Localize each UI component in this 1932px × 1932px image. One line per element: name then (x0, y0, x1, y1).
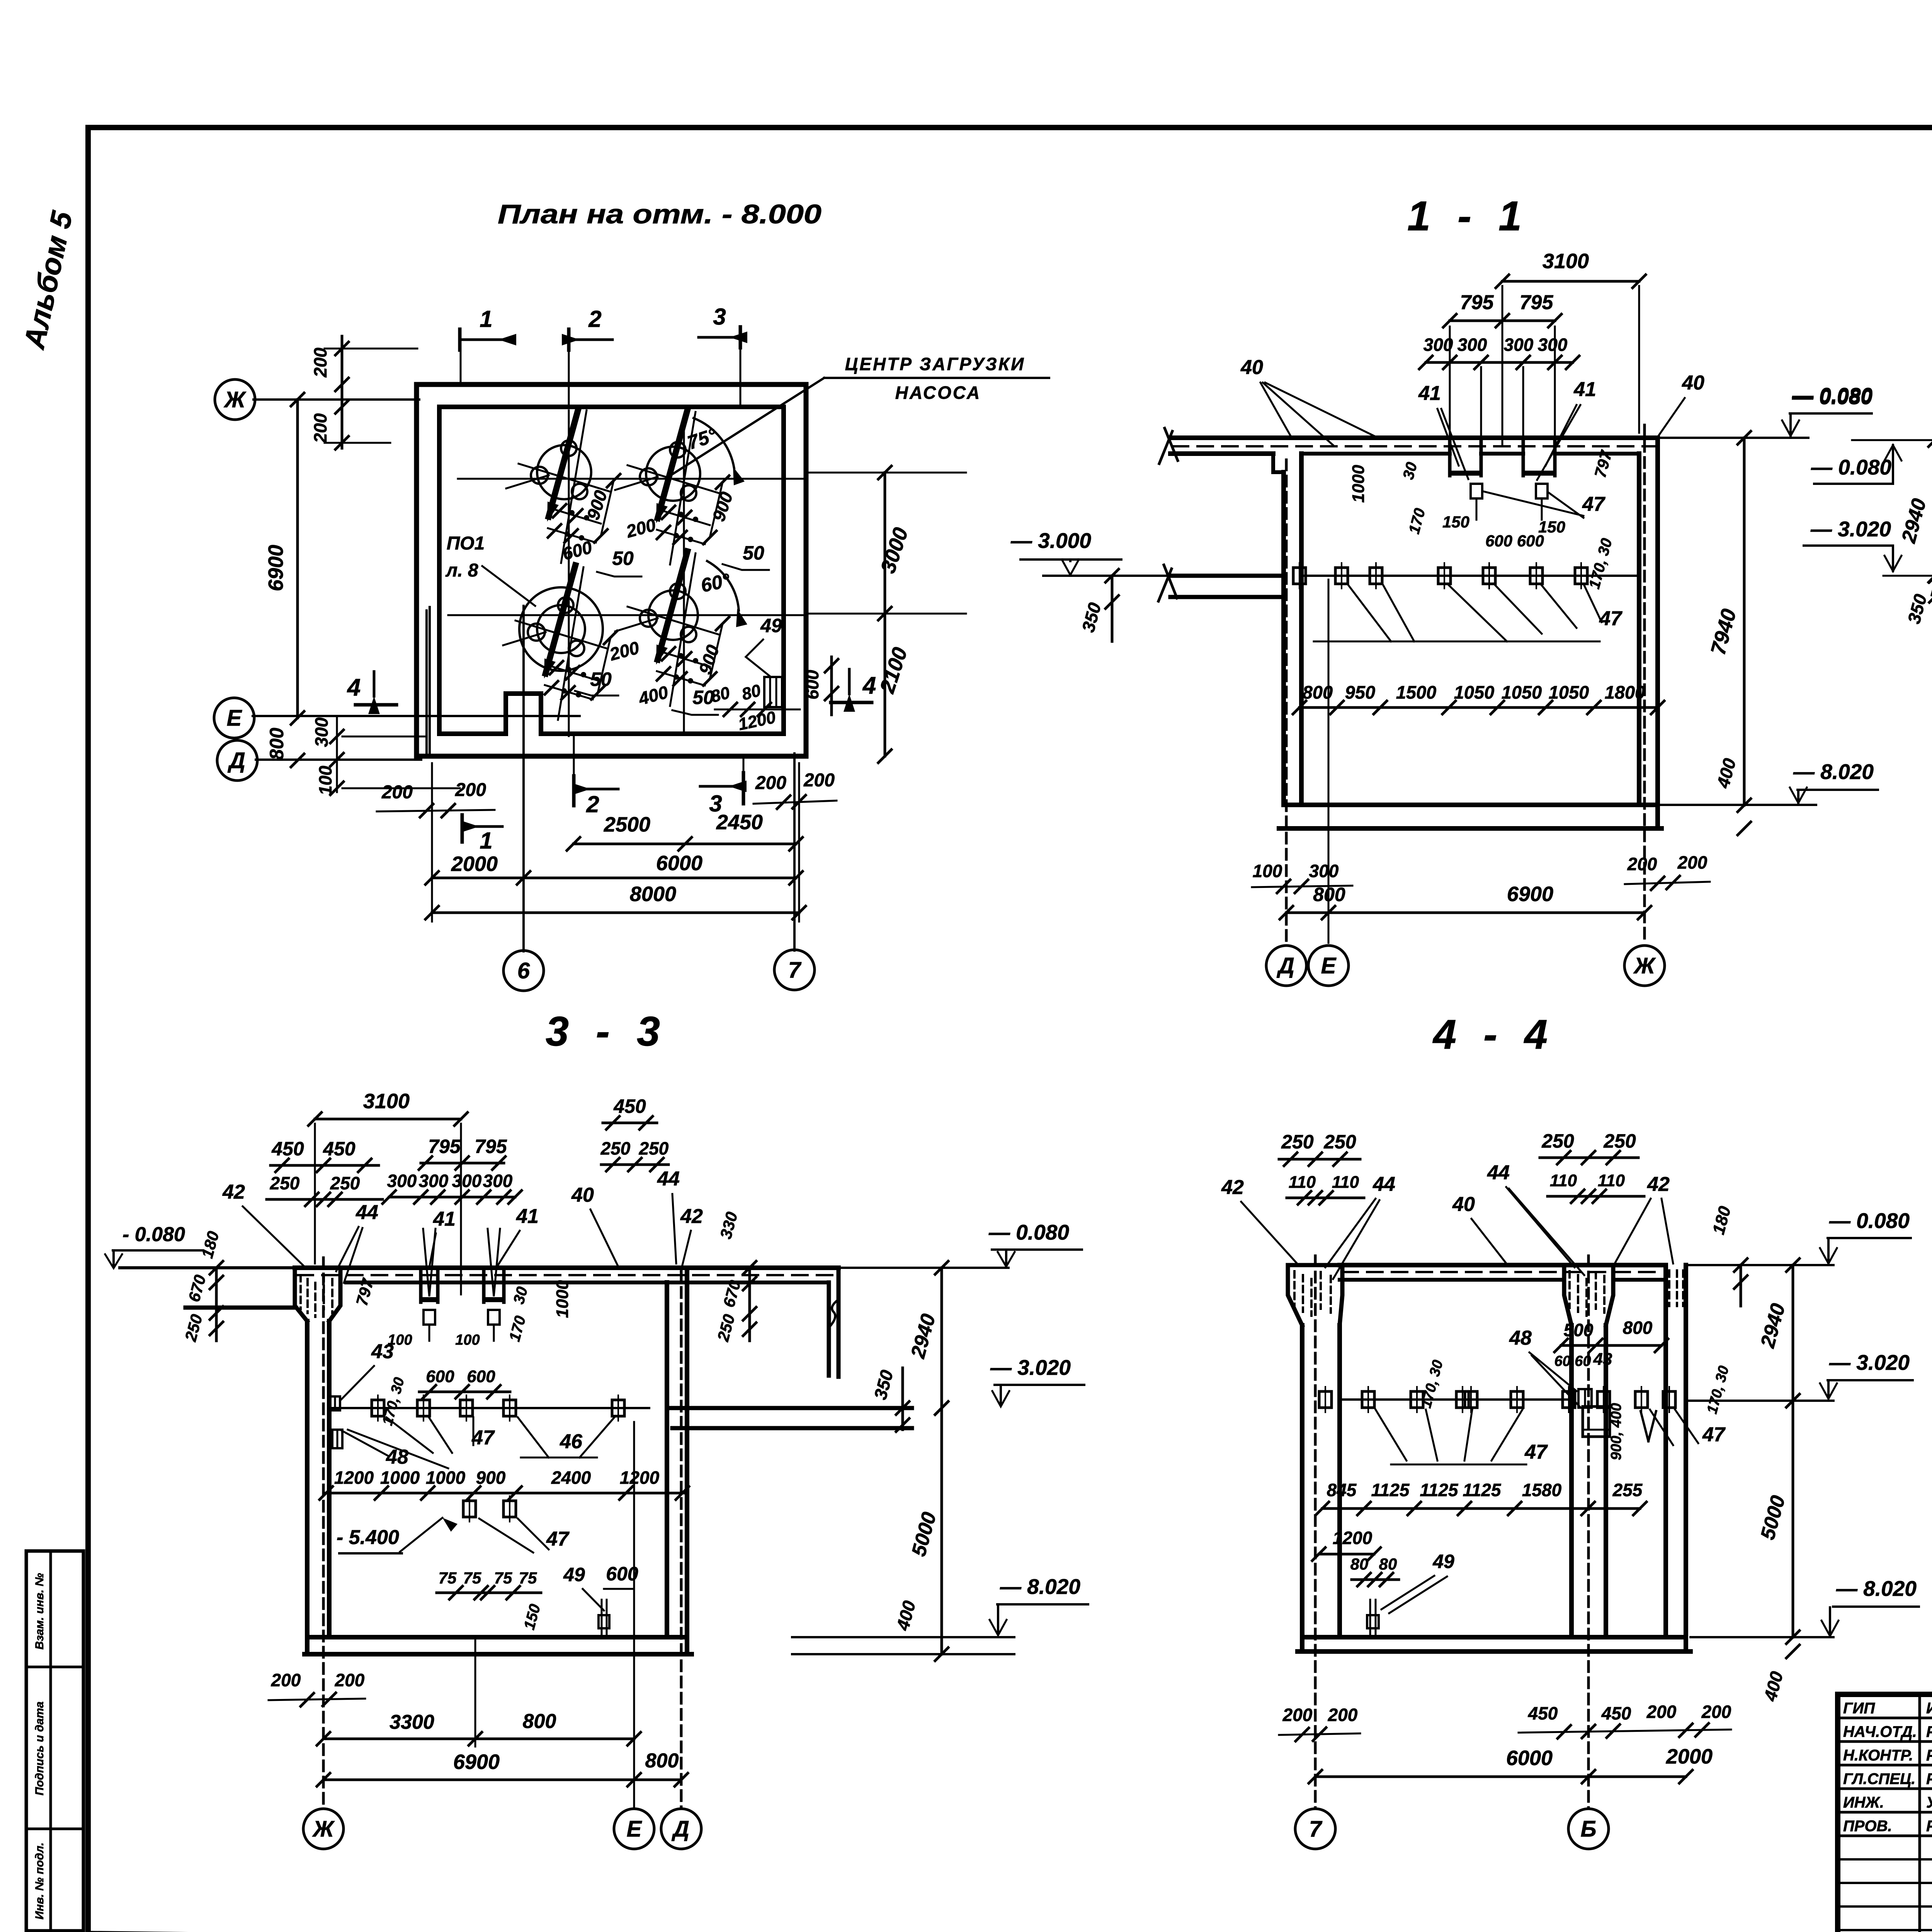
svg-text:РАШЕВСКИЙ: РАШЕВСКИЙ (1926, 1816, 1932, 1835)
svg-text:3300: 3300 (389, 1711, 434, 1733)
svg-text:200: 200 (1677, 852, 1708, 872)
svg-text:250: 250 (1541, 1130, 1574, 1152)
3-3 wing break mark 2 (831, 1301, 836, 1325)
svg-text:450: 450 (323, 1138, 355, 1160)
svg-text:1000: 1000 (553, 1280, 572, 1318)
axis Д line (256, 759, 421, 761)
svg-text:Б: Б (1580, 1816, 1596, 1842)
svg-text:НАСОСА: НАСОСА (895, 383, 981, 403)
svg-text:75: 75 (439, 1569, 457, 1587)
3-3 label 46 leaders (518, 1417, 549, 1458)
4-4 axis line Б (1587, 1256, 1590, 1808)
svg-text:75: 75 (463, 1569, 481, 1587)
svg-text:300: 300 (1423, 335, 1453, 355)
svg-text:800: 800 (266, 728, 287, 760)
svg-text:42: 42 (222, 1181, 245, 1203)
svg-text:1050: 1050 (1502, 682, 1542, 702)
4-4 anchor block 48 on partition (1578, 1389, 1592, 1408)
svg-text:1800: 1800 (1605, 682, 1645, 702)
3-3 left funnel head with anchors (295, 1268, 307, 1321)
label 50 for pump P4 (672, 710, 718, 715)
svg-text:6900: 6900 (264, 545, 287, 591)
1-1 left wing step (1273, 454, 1284, 472)
svg-text:— 3.020: — 3.020 (1810, 517, 1891, 541)
svg-text:49: 49 (563, 1564, 585, 1585)
svg-text:4: 4 (347, 674, 361, 701)
svg-text:41: 41 (516, 1205, 539, 1228)
svg-text:200: 200 (1646, 1702, 1677, 1722)
svg-text:— 3.000: — 3.000 (1010, 529, 1091, 553)
1-1 top slab (1170, 435, 1658, 440)
svg-text:300: 300 (1538, 335, 1568, 355)
svg-text:Е: Е (1321, 953, 1337, 978)
svg-text:Ж: Ж (223, 387, 247, 412)
svg-text:795: 795 (474, 1136, 507, 1157)
svg-text:800: 800 (1303, 682, 1333, 702)
1-1 anchor plates 47 under notches (1471, 484, 1482, 498)
svg-text:49: 49 (1432, 1551, 1454, 1572)
3-3 left wing slab bottom (185, 1306, 295, 1310)
svg-text:795: 795 (1460, 291, 1494, 314)
3-3 axis circles (303, 1809, 344, 1849)
svg-text:110: 110 (1598, 1171, 1625, 1190)
svg-text:41: 41 (1573, 378, 1596, 401)
svg-text:1200: 1200 (1333, 1528, 1372, 1548)
pump P3 bottom-left (519, 587, 603, 671)
svg-text:110: 110 (1289, 1173, 1316, 1192)
3-3 left wall (305, 1321, 310, 1654)
4-4 axis circles (1295, 1809, 1335, 1849)
svg-text:2400: 2400 (551, 1468, 591, 1488)
svg-text:Д: Д (671, 1816, 689, 1842)
axis Д circle (217, 740, 257, 781)
svg-text:Инв. № подл.: Инв. № подл. (33, 1842, 46, 1919)
svg-text:ЦЕНТР ЗАГРУЗКИ: ЦЕНТР ЗАГРУЗКИ (845, 354, 1025, 374)
1-1 axis lines (1285, 460, 1288, 943)
svg-text:250: 250 (270, 1173, 300, 1193)
plan inner wall with floor notch (439, 407, 784, 734)
svg-text:41: 41 (433, 1208, 456, 1230)
svg-text:РАШЕВСКИЙ: РАШЕВСКИЙ (1926, 1769, 1932, 1787)
section mark 1 bottom (461, 815, 464, 842)
svg-text:6000: 6000 (1506, 1747, 1553, 1770)
svg-text:200: 200 (1328, 1705, 1358, 1725)
svg-text:1: 1 (480, 828, 492, 854)
3-3 slab notches 41 with funnel inserts (419, 1268, 423, 1302)
75 degree arc and leader (694, 418, 734, 468)
svg-text:250: 250 (330, 1173, 360, 1193)
svg-text:44: 44 (1372, 1173, 1395, 1196)
svg-text:795: 795 (1520, 291, 1554, 314)
svg-text:- 5.400: - 5.400 (337, 1526, 399, 1549)
svg-text:Е: Е (227, 706, 243, 731)
axis Ж circle (215, 379, 255, 420)
1-1 level -8.020 right (1658, 804, 1816, 806)
svg-text:845: 845 (1327, 1480, 1357, 1500)
column line through axis 6 (522, 606, 525, 951)
1-1 slab bottom segments (1301, 452, 1450, 456)
svg-text:300: 300 (311, 717, 332, 747)
svg-text:47: 47 (546, 1528, 570, 1550)
thin line through left pumps (568, 410, 570, 736)
svg-text:47: 47 (1702, 1423, 1726, 1446)
svg-text:План на отм. - 8.000: План на отм. - 8.000 (498, 199, 821, 229)
plan wall aux line (425, 611, 428, 755)
pump row centerline bottom (448, 614, 805, 616)
svg-text:ГИП: ГИП (1843, 1700, 1875, 1717)
1-1 plate leaders (1349, 585, 1391, 641)
label 50 for pump P2 (723, 564, 769, 570)
svg-text:200: 200 (381, 782, 413, 803)
svg-text:— 0.080: — 0.080 (1792, 383, 1872, 407)
svg-text:200: 200 (310, 413, 330, 443)
1-1 right wall (1637, 454, 1641, 805)
svg-text:л. 8: л. 8 (445, 560, 478, 581)
svg-text:ГЛ.СПЕЦ.: ГЛ.СПЕЦ. (1843, 1770, 1915, 1787)
1-1 slab notch left (pos.41) (1448, 438, 1452, 476)
svg-text:44: 44 (1487, 1162, 1510, 1184)
svg-text:100: 100 (315, 765, 335, 795)
svg-text:200: 200 (755, 773, 786, 793)
svg-text:48: 48 (1509, 1327, 1532, 1349)
svg-text:2000: 2000 (451, 852, 498, 876)
plan dim extension verticals (431, 763, 433, 922)
svg-text:800: 800 (523, 1710, 556, 1733)
thin line through right pumps (683, 415, 685, 734)
4-4 left funnel head (1288, 1265, 1302, 1325)
svg-text:4: 4 (862, 672, 876, 699)
1-1 left wing floor (1170, 574, 1284, 578)
svg-text:47: 47 (1599, 607, 1622, 630)
4-4 partition wall (1569, 1325, 1574, 1637)
svg-text:300: 300 (1458, 335, 1487, 355)
3-3 floor extension lines right (792, 1636, 1014, 1638)
svg-text:3 - 3: 3 - 3 (546, 1008, 668, 1054)
1-1 left wall (1281, 472, 1286, 805)
svg-text:800: 800 (645, 1750, 679, 1772)
svg-text:ПО1: ПО1 (447, 533, 485, 554)
4-4 axis line 7 (1314, 1256, 1317, 1808)
svg-text:450: 450 (1528, 1703, 1558, 1723)
axis Е circle (214, 698, 254, 738)
svg-text:600: 600 (467, 1367, 495, 1386)
3-3 plate row line (329, 1407, 649, 1409)
column line through axis 7 (793, 753, 796, 951)
3-3 axis lines ЕД (633, 1422, 635, 1808)
svg-text:100: 100 (455, 1332, 480, 1348)
svg-text:ПРОВ.: ПРОВ. (1843, 1818, 1892, 1835)
svg-text:— 8.020: — 8.020 (1836, 1577, 1917, 1600)
svg-text:600: 600 (426, 1367, 454, 1386)
svg-text:250: 250 (639, 1138, 669, 1158)
svg-text:200: 200 (1627, 854, 1657, 874)
3-3 right wing (827, 1282, 831, 1376)
svg-text:450: 450 (613, 1095, 646, 1117)
3-3 right wall (665, 1282, 669, 1637)
svg-text:100: 100 (388, 1332, 412, 1348)
pump P4 bottom-right (648, 590, 698, 640)
svg-text:4 - 4: 4 - 4 (1432, 1011, 1555, 1058)
svg-text:46: 46 (560, 1430, 583, 1453)
svg-text:950: 950 (1345, 682, 1375, 702)
svg-text:1500: 1500 (1396, 682, 1437, 702)
4-4 top slab (1340, 1263, 1666, 1267)
svg-text:300: 300 (1309, 861, 1339, 881)
3-3 ground line left (120, 1266, 295, 1269)
4-4 pit box under partition (1583, 1406, 1610, 1437)
svg-text:3100: 3100 (363, 1090, 410, 1113)
svg-text:300: 300 (452, 1171, 482, 1191)
label 50 for pump P3 (575, 691, 618, 696)
svg-text:200: 200 (455, 780, 486, 800)
3-3 floor (309, 1635, 687, 1639)
svg-text:50: 50 (612, 548, 634, 569)
main title block frame (1838, 1694, 1932, 1932)
svg-text:Подпись и дата: Подпись и дата (33, 1701, 46, 1795)
section mark 4 right (848, 669, 851, 694)
4-4 bolt cluster (1367, 1615, 1379, 1628)
3-3 right level -0.080 (838, 1267, 1009, 1269)
svg-text:48: 48 (386, 1446, 408, 1468)
svg-text:Взам. инв. №: Взам. инв. № (33, 1573, 46, 1650)
3-3 anchor block 43/48 on wall (330, 1396, 340, 1410)
1-1 slab notch right (pos.41) (1522, 438, 1525, 476)
svg-text:150: 150 (1442, 513, 1469, 531)
svg-text:8000: 8000 (630, 883, 676, 906)
1-1 axis circles (1266, 946, 1306, 986)
svg-text:900, 400: 900, 400 (1608, 1403, 1624, 1460)
1-1 plate row line (1301, 575, 1639, 577)
svg-text:300: 300 (483, 1171, 513, 1191)
svg-text:1050: 1050 (1454, 682, 1495, 702)
section mark 4 left (373, 672, 376, 696)
3-3 top slab (295, 1265, 838, 1270)
svg-text:49: 49 (760, 615, 782, 636)
1-1 wing break marks (1165, 428, 1178, 461)
section mark 2 bottom (572, 776, 576, 806)
svg-text:47: 47 (1524, 1441, 1548, 1463)
svg-text:2000: 2000 (1666, 1745, 1713, 1768)
4-4 plate row line (1340, 1398, 1571, 1401)
svg-text:— 0.080: — 0.080 (1829, 1209, 1910, 1233)
svg-text:255: 255 (1612, 1480, 1643, 1500)
axis Е line (253, 715, 580, 717)
svg-text:200: 200 (271, 1670, 301, 1690)
svg-text:795: 795 (428, 1136, 461, 1157)
4-4 middle funnel head on axis Б (1564, 1265, 1571, 1325)
pump P1 top-left (537, 445, 591, 499)
svg-text:800: 800 (1313, 884, 1345, 905)
svg-text:300: 300 (387, 1171, 417, 1191)
svg-text:Д: Д (227, 748, 245, 773)
svg-text:2450: 2450 (716, 811, 763, 834)
svg-text:800: 800 (1623, 1318, 1653, 1338)
pump row centerline top (458, 478, 805, 480)
svg-text:41: 41 (1418, 382, 1441, 405)
3-3 wall axis Ж (322, 1258, 325, 1808)
4-4 left wall (1300, 1325, 1304, 1651)
1-1 anchor plates row 47 (1293, 568, 1306, 584)
svg-text:ИНЖ.: ИНЖ. (1843, 1794, 1884, 1811)
svg-text:РЫБКИНА: РЫБКИНА (1926, 1723, 1932, 1740)
axis 7 circle (774, 950, 815, 990)
4-4 funnel V under plate (1641, 1411, 1648, 1441)
svg-text:— 8.020: — 8.020 (1000, 1575, 1080, 1599)
section mark 2 top (567, 329, 571, 350)
svg-text:450: 450 (271, 1138, 304, 1160)
svg-text:Д: Д (1276, 953, 1294, 978)
3-3 plates row 47/46 (372, 1400, 384, 1416)
4-4 floor (1302, 1635, 1686, 1639)
section mark 1 top (458, 329, 462, 350)
svg-text:300: 300 (419, 1171, 449, 1191)
svg-text:ИВАНОВА: ИВАНОВА (1926, 1700, 1932, 1717)
title block signature table (1838, 1717, 1932, 1719)
3-3 anchor plates 47 under notches (423, 1310, 435, 1325)
svg-text:47: 47 (471, 1427, 495, 1449)
svg-text:7: 7 (1309, 1816, 1323, 1842)
4-4 plates row 47 (1319, 1391, 1332, 1408)
plan outer wall (417, 384, 806, 756)
label 50 for pump P1 (597, 572, 641, 577)
plan cut line stubs (568, 350, 570, 406)
svg-text:1050: 1050 (1549, 682, 1589, 702)
svg-text:600: 600 (802, 670, 822, 699)
left margin stamp boxes (26, 1551, 83, 1931)
svg-text:50: 50 (743, 542, 764, 564)
svg-text:6: 6 (517, 958, 530, 983)
svg-text:УДАЛОВА: УДАЛОВА (1926, 1794, 1932, 1811)
svg-text:40: 40 (1682, 372, 1704, 394)
svg-text:2: 2 (586, 791, 599, 817)
svg-text:— 0.080: — 0.080 (988, 1220, 1069, 1244)
svg-text:300: 300 (1504, 335, 1534, 355)
svg-text:200: 200 (310, 347, 330, 378)
svg-text:— 0.080: — 0.080 (1811, 455, 1891, 479)
svg-text:110: 110 (1550, 1171, 1577, 1190)
svg-text:250: 250 (1281, 1131, 1314, 1153)
svg-text:40: 40 (571, 1184, 594, 1206)
axis Ж line (253, 398, 419, 401)
svg-text:80: 80 (1350, 1555, 1369, 1573)
svg-text:1000: 1000 (426, 1468, 466, 1488)
svg-text:РАШЕВСКИЙ: РАШЕВСКИЙ (1926, 1746, 1932, 1764)
svg-text:250: 250 (600, 1138, 631, 1158)
dim 800 Е-Д (291, 754, 304, 767)
vertical dim 3000 2100 right of plan (884, 473, 886, 756)
svg-text:900: 900 (476, 1468, 506, 1488)
svg-text:1125: 1125 (1420, 1480, 1459, 1500)
svg-text:- 0.080: - 0.080 (122, 1223, 185, 1246)
svg-text:6900: 6900 (1507, 883, 1553, 906)
svg-text:43: 43 (1593, 1350, 1612, 1369)
3-3 plate leaders to 47 (386, 1417, 433, 1453)
svg-text:250: 250 (1323, 1131, 1356, 1153)
svg-text:1: 1 (480, 306, 492, 332)
section mark 3 top (739, 327, 742, 348)
svg-text:— 8.020: — 8.020 (1793, 760, 1874, 784)
1-1 floor (1284, 803, 1658, 807)
svg-text:42: 42 (1647, 1173, 1670, 1196)
svg-text:60 60: 60 60 (1554, 1353, 1591, 1369)
3-3 wing floor right (667, 1406, 912, 1410)
svg-text:600 600: 600 600 (1485, 532, 1544, 550)
svg-text:40: 40 (1240, 356, 1263, 379)
svg-text:100: 100 (1253, 861, 1282, 881)
svg-text:40: 40 (1452, 1193, 1475, 1216)
svg-text:— 3.020: — 3.020 (990, 1355, 1071, 1379)
svg-text:2500: 2500 (604, 813, 650, 836)
svg-text:200: 200 (1282, 1705, 1313, 1725)
svg-text:450: 450 (1601, 1703, 1631, 1723)
svg-text:3100: 3100 (1543, 250, 1589, 273)
svg-text:1200: 1200 (334, 1468, 374, 1488)
svg-text:200: 200 (1701, 1702, 1731, 1722)
svg-text:1580: 1580 (1522, 1480, 1562, 1500)
svg-text:1125: 1125 (1463, 1480, 1502, 1500)
60 degree arc (707, 561, 739, 611)
1-1 level -0.080 right (1658, 437, 1808, 439)
svg-text:200: 200 (335, 1670, 365, 1690)
pump P2 top-right (646, 447, 700, 501)
pump row line extensions right (805, 472, 966, 474)
svg-text:3: 3 (713, 304, 726, 330)
svg-text:1125: 1125 (1371, 1480, 1410, 1500)
svg-text:7: 7 (788, 957, 802, 983)
svg-text:6900: 6900 (453, 1750, 500, 1774)
svg-text:200: 200 (803, 770, 835, 791)
svg-text:Е: Е (627, 1816, 643, 1842)
svg-text:250: 250 (1603, 1130, 1636, 1152)
section mark 3 bottom (742, 773, 745, 804)
svg-text:110: 110 (1332, 1173, 1359, 1192)
svg-text:1000: 1000 (1349, 465, 1368, 503)
svg-text:6000: 6000 (656, 852, 702, 875)
svg-text:1000: 1000 (380, 1468, 420, 1488)
svg-text:1200: 1200 (620, 1468, 660, 1488)
3-3 bolt cluster at floor (599, 1615, 609, 1628)
axis 6 circle (503, 951, 544, 991)
svg-text:НАЧ.ОТД.: НАЧ.ОТД. (1843, 1723, 1917, 1740)
svg-text:2: 2 (588, 306, 601, 332)
svg-text:— 3.020: — 3.020 (1829, 1350, 1910, 1374)
svg-text:80: 80 (1379, 1555, 1397, 1573)
svg-text:Н.КОНТР.: Н.КОНТР. (1843, 1747, 1913, 1764)
vertical dim 6900 Ж-Е (296, 400, 299, 718)
svg-text:50: 50 (590, 668, 612, 690)
svg-text:75: 75 (494, 1569, 512, 1587)
svg-text:42: 42 (1221, 1176, 1244, 1199)
svg-text:1 - 1: 1 - 1 (1407, 192, 1529, 239)
svg-text:42: 42 (680, 1205, 703, 1228)
3-3 lower plates 47 (463, 1501, 476, 1517)
1-1 vertical dim 7940 (1743, 438, 1746, 805)
svg-text:500: 500 (1564, 1320, 1594, 1340)
anchor bolt detail rect (764, 677, 782, 707)
svg-text:44: 44 (355, 1201, 378, 1224)
4-4 plate leaders (1376, 1410, 1406, 1461)
svg-text:75: 75 (519, 1569, 537, 1587)
4-4 right wall (1663, 1265, 1668, 1637)
svg-text:Ж: Ж (1633, 953, 1656, 978)
svg-text:Ж: Ж (312, 1816, 335, 1842)
svg-text:44: 44 (657, 1168, 680, 1190)
svg-text:47: 47 (1582, 493, 1605, 515)
